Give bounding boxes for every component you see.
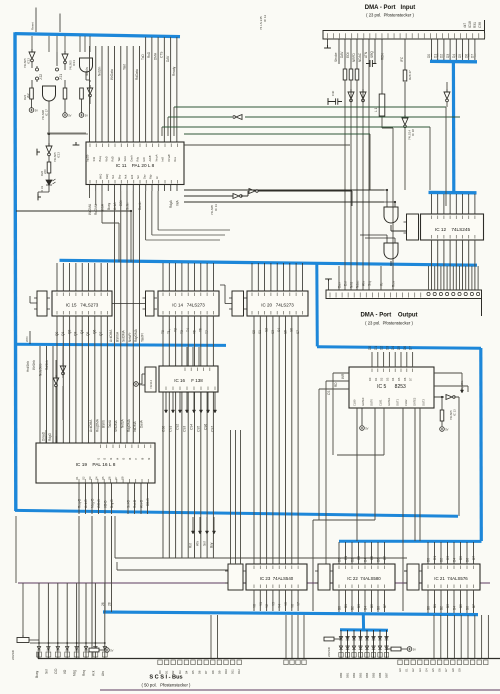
svg-text:WrQ: WrQ (99, 174, 103, 179)
svg-text:D4: D4 (453, 558, 457, 562)
svg-text:DMA - Port Input: DMA - Port Input (365, 5, 415, 11)
wire output data pins up (429, 266, 479, 290)
wire input pin R28 branch (404, 39, 406, 117)
connector J-input right edge stub (484, 20, 486, 31)
svg-text:Rdy: Rdy (136, 156, 140, 161)
svg-text:WrD: WrD (104, 156, 108, 161)
svg-text:DB0: DB0 (339, 672, 343, 678)
svg-text:CS0: CS0 (162, 426, 166, 432)
svg-text:G1: G1 (405, 668, 409, 672)
svg-text:D5: D5 (397, 346, 401, 350)
svg-text:74LS14: 74LS14 (149, 379, 153, 389)
svg-text:D6: D6 (403, 377, 407, 381)
svg-text:D2: D2 (440, 54, 444, 58)
svg-text:IC 12 74LS245: IC 12 74LS245 (435, 227, 471, 232)
blue highlighted net - left loop top segment (15, 34, 180, 37)
LED D31 (46, 180, 52, 192)
svg-text:B2: B2 (440, 606, 444, 610)
ground above IC11 (73, 142, 80, 145)
supply +5V right terminator (407, 647, 412, 652)
svg-text:IC13: IC13 (72, 60, 76, 66)
svg-text:220/330: 220/330 (11, 649, 15, 660)
driver sub-box IC21 (407, 564, 419, 590)
ground above output pin1 (325, 279, 332, 281)
SCSI bus left end (37, 652, 39, 659)
svg-text:D7: D7 (472, 556, 476, 560)
wire IC22 bottom pins to blue bus (339, 590, 385, 612)
blue data bus - vertical branch x317 (315, 265, 319, 347)
svg-text:Takt: Takt (123, 64, 127, 70)
wire y558 horizontal (115, 516, 407, 558)
wire IC14 top pins to blue bus (163, 263, 213, 291)
svg-text:Q3: Q3 (74, 332, 78, 336)
driver sub-box IC20 (232, 291, 244, 316)
wire y583 long horizontal (18, 582, 490, 584)
supply +5V under R22 (29, 108, 34, 113)
svg-text:D1: D1 (433, 556, 437, 560)
svg-text:O1: O1 (75, 476, 79, 480)
svg-text:Msg-D: Msg-D (91, 498, 95, 508)
supply +5V under IC5 (360, 426, 365, 431)
wire IC15 bottom pins down to PAL16L8 (57, 316, 107, 443)
op IC14 box (158, 291, 219, 316)
svg-text:OUT1: OUT1 (396, 399, 400, 406)
svg-text:G8: G8 (451, 668, 455, 672)
blue data bus - bottom horizontal y613 (103, 612, 478, 615)
IC19 top left pins (46, 436, 56, 443)
arrowhead on x462 (460, 390, 463, 393)
svg-text:C/D-D: C/D-D (97, 498, 101, 508)
diodes SCSI terminator row upper (339, 636, 343, 640)
resistor right of terminator (391, 647, 401, 651)
svg-text:Q1: Q1 (61, 332, 65, 336)
IC23 pin ticks top (254, 566, 298, 570)
svg-text:GATE2: GATE2 (413, 397, 417, 406)
wire IC20 sub left link (220, 285, 232, 304)
wire IC15 left stub (30, 296, 37, 303)
op IC23 box (246, 564, 307, 590)
svg-text:B3: B3 (446, 604, 450, 608)
svg-text:IC13: IC13 (57, 152, 61, 158)
svg-text:IC 13: IC 13 (214, 204, 218, 211)
svg-text:D3: D3 (178, 670, 182, 674)
svg-text:D2: D2 (351, 558, 355, 562)
inverter buffers 74LS14 on input lines (348, 89, 354, 99)
wire terminator to resistor right (387, 648, 408, 650)
svg-text:Y7: Y7 (297, 602, 301, 606)
svg-text:D3: D3 (446, 54, 450, 58)
svg-text:D0: D0 (427, 54, 431, 58)
diodes left control group (37, 646, 41, 650)
wire stub above blue branch x30 (29, 331, 31, 344)
svg-text:S3: S3 (271, 330, 275, 334)
svg-text:DmaD: DmaD (42, 431, 46, 441)
svg-text:Busy: Busy (107, 203, 111, 210)
blue highlighted net - left vertical spine (13, 32, 17, 511)
wire right group IC21 outputs to SCSI bus (434, 615, 488, 658)
blue data bus - horizontal y541 above IC22 IC21 (339, 540, 482, 543)
wire into mid inverters (184, 191, 248, 196)
svg-text:D11: D11 (231, 669, 235, 674)
svg-text:DB5: DB5 (372, 672, 376, 678)
svg-text:Sel-D: Sel-D (127, 499, 131, 508)
and gate lower for IC12 control (384, 243, 398, 259)
svg-text:D3: D3 (446, 556, 450, 560)
svg-text:C/D: C/D (54, 668, 58, 674)
svg-text:Int: Int (155, 176, 159, 179)
svg-text:IC 13: IC 13 (453, 409, 457, 416)
svg-text:D6: D6 (466, 558, 470, 562)
IC21 pin ticks bottom (428, 585, 474, 589)
wire left bundle to SCSI terminator (79, 516, 92, 658)
wire IC12 top pins to blue bar (432, 194, 475, 214)
svg-text:EOI: EOI (142, 157, 146, 162)
svg-text:GATE0: GATE0 (361, 397, 365, 406)
IC11 pin number ticks bottom (90, 180, 178, 184)
wire long horizontal y107 (174, 106, 446, 108)
ground left of LED driver (37, 149, 40, 156)
svg-text:CS4: CS4 (190, 424, 194, 430)
pin boxes group mid under bus (284, 660, 288, 665)
wire stub above blue line Reset (35, 8, 37, 33)
wire IC23 bottom pins to blue bus (254, 590, 298, 611)
svg-text:Req-D: Req-D (78, 498, 82, 508)
svg-text:DavA: DavA (139, 419, 143, 428)
blue data bus - vertical drop x453 (452, 61, 456, 192)
svg-text:O8: O8 (121, 476, 125, 480)
svg-text:NetzA: NetzA (121, 418, 125, 428)
wire IC20 top pins to blue bus (252, 263, 302, 291)
svg-text:CTS: CTS (160, 52, 164, 58)
diodes SCSI terminator row lower (339, 646, 343, 650)
svg-text:T6: T6 (199, 328, 203, 332)
IC16 pin ticks top (185, 368, 210, 372)
svg-text:CLK2: CLK2 (404, 399, 408, 406)
op IC19 PAL 16L8 box (36, 443, 155, 483)
wire IC16 outputs with arrows (166, 392, 215, 411)
svg-text:D3: D3 (385, 346, 389, 350)
svg-text:Y3: Y3 (271, 602, 275, 606)
svg-text:RdyDMA: RdyDMA (134, 328, 138, 342)
svg-text:T7: T7 (205, 330, 209, 334)
svg-text:IC18: IC18 (468, 21, 472, 28)
wire inverter IC18 output down to bus wire (404, 128, 406, 191)
wire IC11 right side outputs (146, 191, 159, 240)
svg-text:OUT0: OUT0 (370, 399, 374, 406)
wire +5V to IC16 sub (138, 374, 142, 384)
wire IC20 bottom pins down to IC23 (254, 316, 298, 564)
svg-text:5V: 5V (85, 113, 88, 117)
svg-text:StA: StA (111, 175, 115, 179)
svg-text:D0: D0 (427, 558, 431, 562)
svg-text:InpD0: InpD0 (86, 154, 90, 161)
svg-text:DmaB: DmaB (167, 154, 171, 161)
svg-text:CS7: CS7 (211, 426, 215, 432)
supply +5V left of IC16 (134, 382, 139, 387)
svg-text:B1: B1 (344, 604, 348, 608)
svg-text:D10: D10 (224, 669, 228, 674)
pin boxes right group under bus (398, 660, 402, 665)
svg-text:DavA: DavA (129, 155, 133, 162)
svg-text:DB-D: DB-D (146, 498, 150, 506)
wire R26 to LED D31 (48, 173, 50, 180)
svg-text:REN: REN (381, 53, 385, 60)
wire gate upper inputs (384, 190, 395, 207)
svg-text:D2: D2 (380, 377, 384, 381)
svg-text:Y6: Y6 (290, 604, 294, 608)
wire left spine continuation below blue (15, 516, 17, 583)
svg-text:D3: D3 (357, 556, 361, 560)
svg-text:T5: T5 (192, 330, 196, 334)
svg-text:WrD: WrD (25, 336, 29, 342)
svg-text:IC 14 74LS273: IC 14 74LS273 (172, 303, 205, 308)
supply +5V under R29 (440, 427, 445, 432)
svg-text:Y1: Y1 (259, 602, 263, 606)
blue data bus - main horizontal bus y263 (60, 260, 478, 265)
svg-text:BStrb: BStrb (102, 420, 106, 428)
svg-text:Y4: Y4 (278, 604, 282, 608)
circle pads under output data pins (427, 292, 430, 295)
wire jumper J22 links (32, 62, 37, 89)
svg-text:D1: D1 (433, 54, 437, 58)
svg-text:L 1: L 1 (374, 107, 378, 112)
svg-text:DMA - Port Output: DMA - Port Output (360, 313, 417, 319)
wire IC5 out1 long to SCSI bus (402, 408, 404, 611)
svg-text:I/O-D: I/O-D (104, 500, 108, 508)
IC12 pin ticks bottom (432, 235, 475, 239)
connector J-input bar (323, 31, 485, 40)
svg-text:IC 12: IC 12 (263, 14, 267, 22)
wire long horizontal y190 to IC12 gates (184, 189, 384, 191)
jumper J22 (36, 68, 39, 71)
resistor R mid and +5V (89, 648, 99, 652)
svg-text:T0: T0 (161, 330, 165, 334)
svg-text:Bsy: Bsy (117, 174, 121, 179)
svg-text:DB6: DB6 (378, 672, 382, 678)
wire drops from blue top line to gates (32, 36, 90, 52)
svg-text:B2: B2 (351, 606, 355, 610)
svg-text:CLK0: CLK0 (353, 399, 357, 406)
svg-text:S C S I - Bus: S C S I - Bus (149, 675, 182, 681)
ground at input pin1 (324, 45, 331, 48)
op IC15 box (52, 291, 112, 316)
inverter 74LS05 IC13 LED driver (46, 143, 52, 153)
svg-text:IC 22 74ALS580: IC 22 74ALS580 (347, 576, 381, 581)
resistor R22 pullup (30, 88, 34, 99)
svg-text:IC 21 74ALS576: IC 21 74ALS576 (434, 576, 468, 581)
svg-text:Nrfd: Nrfd (350, 282, 354, 288)
svg-text:Strb: Strb (92, 156, 96, 161)
IC22 pin ticks top (339, 566, 385, 570)
svg-text:Rst: Rst (189, 543, 193, 548)
IC11 pin number ticks top (90, 144, 178, 148)
svg-text:28: 28 (108, 602, 112, 606)
svg-text:D7: D7 (383, 556, 387, 560)
wire gate lower output (390, 261, 392, 266)
pin number boxes left group (37, 652, 42, 657)
inductor L1 (379, 94, 385, 116)
IC15 pin ticks bottom (57, 311, 107, 315)
ground under LED D31 (38, 194, 41, 201)
wire LED to ground (38, 192, 49, 197)
blue data bus - right vertical x481 (479, 348, 483, 541)
svg-text:D2: D2 (440, 558, 444, 562)
wire output left pins up to bus (339, 266, 393, 290)
svg-text:Ack: Ack (91, 670, 95, 676)
resistor R15 pullup (80, 88, 84, 99)
inverter 74LS14 right (444, 89, 450, 99)
svg-text:D1: D1 (344, 556, 348, 560)
inverter 74LS05 IC13 left B (62, 51, 68, 61)
and gate upper for IC12 control (384, 207, 398, 223)
wire gate outputs down (49, 72, 90, 134)
connector J-input pin number ticks (328, 33, 485, 38)
svg-text:C38: C38 (478, 22, 482, 28)
svg-text:Y2: Y2 (265, 604, 269, 608)
connector J-output right edge stub (481, 299, 483, 317)
svg-text:NetzFr: NetzFr (128, 331, 132, 342)
wire gate lower inputs (360, 235, 395, 243)
resistor R29 right of IC5 (440, 410, 444, 421)
svg-text:G5: G5 (431, 668, 435, 672)
svg-text:IC 15 74LS273: IC 15 74LS273 (66, 303, 99, 308)
svg-text:CS5: CS5 (197, 426, 201, 432)
svg-text:RdData: RdData (135, 69, 139, 80)
connector J-output bar (326, 290, 482, 299)
svg-text:D1: D1 (374, 377, 378, 381)
svg-text:WrData: WrData (110, 69, 114, 80)
wire R29 to +5V (441, 397, 443, 426)
wire IC16 top pins (187, 347, 199, 366)
svg-text:Ack: Ack (124, 174, 128, 179)
wire y570 horizontal to IC23 sub (117, 562, 228, 570)
wire vertical x49 to inverter LED chain (48, 134, 50, 146)
svg-text:Atn: Atn (196, 541, 200, 546)
wire bottom border line (100, 689, 500, 691)
svg-text:G9: G9 (457, 668, 461, 672)
svg-text:D0: D0 (368, 377, 372, 381)
svg-text:IC 17: IC 17 (45, 109, 49, 116)
svg-text:( 50 pol. Pfostenstecker ): ( 50 pol. Pfostenstecker ) (142, 683, 191, 688)
svg-text:( 23 pol. Pfostenstecker ): ( 23 pol. Pfostenstecker ) (366, 13, 414, 18)
svg-text:Q7: Q7 (99, 332, 103, 336)
wire bend right outputs (146, 230, 230, 240)
svg-text:Rdy: Rdy (149, 174, 153, 179)
wire IC5 right out2 to inverter (434, 396, 444, 398)
wire IC5 left pins (319, 373, 349, 564)
IC12 pin ticks top (432, 216, 475, 220)
svg-text:WR: WR (341, 373, 345, 379)
driver sub-box IC15 (37, 291, 47, 316)
wire bundle upper left into IC11 top pins (90, 46, 140, 142)
svg-text:SRQ: SRQ (370, 51, 374, 58)
wire IC14 bottom pins down long (163, 316, 213, 558)
driver sub-box IC12 (407, 214, 419, 240)
wire input pin L1 branch (381, 39, 383, 94)
svg-text:B6: B6 (466, 606, 470, 610)
svg-text:ATN: ATN (364, 51, 368, 58)
svg-text:5V: 5V (68, 113, 71, 117)
wire IC21 bottom pins to blue bus (428, 590, 474, 613)
svg-text:5V: 5V (35, 108, 38, 112)
svg-text:D5: D5 (397, 377, 401, 381)
svg-text:Q6: Q6 (93, 330, 97, 334)
wire left column from blue branch to PAL16L8 (40, 346, 53, 443)
svg-text:D5: D5 (458, 54, 462, 58)
wire IC22 top pins from blue y541 (339, 542, 385, 564)
svg-text:IC 20 74LS273: IC 20 74LS273 (261, 303, 294, 308)
wire inverter to R26 (48, 156, 50, 163)
svg-text:TxD: TxD (141, 53, 145, 60)
svg-text:4k7: 4k7 (463, 23, 467, 28)
svg-text:RdQ: RdQ (105, 174, 109, 179)
svg-text:S0: S0 (252, 330, 256, 334)
svg-text:D4: D4 (391, 377, 395, 381)
svg-text:SelDMA: SelDMA (122, 329, 126, 342)
capacitor C at top middle (366, 60, 376, 67)
svg-text:220: 220 (43, 169, 47, 174)
svg-text:G4: G4 (424, 668, 428, 672)
wire R15 to +5V (81, 99, 83, 113)
SCSI bus line (38, 658, 500, 660)
svg-text:D 31: D 31 (40, 186, 44, 192)
wire mid pair to SCSI bus (211, 615, 218, 658)
resistor R26 220 (47, 162, 51, 173)
svg-text:SelA: SelA (123, 156, 127, 162)
svg-text:O6: O6 (108, 476, 112, 480)
svg-text:B0: B0 (427, 606, 431, 610)
wire gate upper output to IC12 (391, 225, 406, 231)
svg-text:T4: T4 (186, 328, 190, 332)
IC22 pin ticks bottom (339, 585, 385, 589)
blue data bus - bar above terminator network (340, 628, 388, 631)
svg-text:AckA: AckA (113, 202, 117, 210)
wire R18 to +5V (64, 99, 66, 113)
svg-text:220/330: 220/330 (327, 646, 331, 657)
svg-text:IC 23 74ALS540: IC 23 74ALS540 (260, 576, 294, 581)
svg-text:IC 18: IC 18 (411, 129, 415, 136)
wire IC12 bottom pins to DMA output (432, 240, 475, 290)
svg-text:D7: D7 (409, 377, 413, 381)
blue data bus - drop to SCSI terminator x363 (362, 614, 365, 630)
wire stub above blue line second (59, 14, 61, 33)
junction dots terminator (340, 636, 342, 638)
svg-text:Rst-D: Rst-D (133, 499, 137, 508)
svg-text:5V: 5V (445, 427, 448, 431)
svg-text:D3: D3 (385, 377, 389, 381)
wire long horizontal y134 (184, 133, 370, 135)
junction dots left group (38, 642, 40, 644)
svg-text:D5: D5 (370, 556, 374, 560)
svg-text:Atn: Atn (101, 671, 105, 676)
wire bundle IC11 to PAL16L8 through gap (115, 191, 140, 443)
svg-text:ReqDMA: ReqDMA (95, 418, 99, 432)
svg-text:D4: D4 (391, 346, 395, 350)
svg-text:Msg: Msg (73, 670, 77, 676)
blue data bus - bar above IC12 (429, 191, 477, 195)
svg-text:Q4: Q4 (80, 330, 84, 334)
svg-text:DB3: DB3 (359, 672, 363, 678)
capacitor C40 with ground (331, 98, 342, 104)
svg-text:Q2: Q2 (67, 330, 71, 334)
and gate 74LS08 IC17 lower (43, 86, 56, 101)
svg-text:SelDMA: SelDMA (114, 419, 118, 432)
svg-text:AckB: AckB (148, 155, 152, 161)
op IC21 box (422, 564, 480, 590)
svg-text:IC 19 PAL 16 L 8: IC 19 PAL 16 L 8 (76, 462, 116, 468)
op IC16 F138 box (159, 366, 218, 392)
svg-text:SelIn: SelIn (126, 203, 130, 210)
